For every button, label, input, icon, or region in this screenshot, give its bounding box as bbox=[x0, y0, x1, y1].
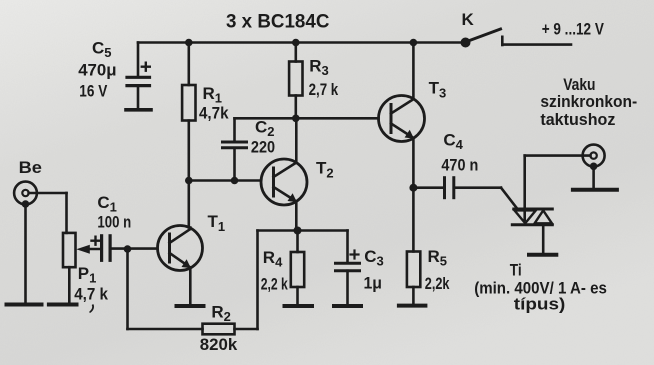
switch K bbox=[461, 29, 572, 48]
node: R3 bottom / T2 collector / T3 base bbox=[292, 115, 300, 123]
wire: R2 to T1 base bbox=[128, 249, 203, 329]
ground: under T1 emitter bbox=[177, 304, 204, 308]
svg-text:4,7 k: 4,7 k bbox=[74, 285, 108, 304]
svg-text:Ti: Ti bbox=[510, 260, 522, 279]
paper background bbox=[0, 0, 1, 1]
svg-text:2,2k: 2,2k bbox=[425, 274, 450, 293]
ground: under R4 bbox=[285, 304, 313, 308]
ground: under Ti bbox=[529, 253, 556, 257]
svg-text:470μ: 470μ bbox=[78, 60, 116, 79]
svg-text:2,2 k: 2,2 k bbox=[261, 274, 288, 293]
svg-text:taktushoz: taktushoz bbox=[540, 110, 615, 129]
ground: under P1 bbox=[49, 303, 77, 307]
node: C1/T1 base junction bbox=[124, 245, 132, 253]
node: C2 bottom junction bbox=[231, 177, 239, 185]
ground: under C3 bbox=[334, 304, 361, 308]
ground: under Be jack bbox=[7, 303, 42, 307]
capacitor C1 100n bbox=[92, 236, 128, 260]
svg-text:2,7 k: 2,7 k bbox=[309, 80, 339, 99]
resistor R5 2,2k bbox=[407, 188, 420, 305]
transistor T1 bbox=[158, 226, 203, 305]
svg-text:220: 220 bbox=[251, 138, 275, 157]
svg-text:K: K bbox=[462, 10, 475, 29]
wire: to T2 base bbox=[189, 179, 261, 182]
ground: under R5 bbox=[399, 304, 426, 308]
svg-text:16 V: 16 V bbox=[79, 81, 108, 100]
capacitor C2 220 bbox=[223, 118, 247, 180]
svg-text:100 n: 100 n bbox=[97, 212, 131, 231]
svg-text:820k: 820k bbox=[200, 335, 238, 354]
wire: T3 base line bbox=[235, 117, 379, 120]
svg-text:4,7k: 4,7k bbox=[199, 104, 229, 123]
potentiometer P1 body bbox=[63, 233, 76, 303]
capacitor C5 bbox=[126, 43, 151, 110]
thyristor Ti (triac) bbox=[512, 156, 552, 254]
resistor R1 4,7k bbox=[182, 43, 195, 228]
svg-text:1μ: 1μ bbox=[364, 274, 383, 293]
potentiometer P1 4,7k wiper arrow bbox=[76, 245, 101, 254]
node: emitter/R4 junction bbox=[294, 227, 302, 235]
wire: feedback down-left to R2 bbox=[235, 231, 258, 330]
wire: Be jack to P1 top bbox=[29, 193, 67, 233]
svg-text:+ 9 ...12 V: + 9 ...12 V bbox=[542, 20, 605, 39]
resistor R3 2,7k bbox=[289, 43, 302, 119]
wire: Ti MT2 to output jack bbox=[525, 154, 591, 157]
capacitor C4 470n bbox=[413, 178, 501, 198]
svg-text:Be: Be bbox=[19, 158, 42, 177]
svg-text:típus): típus) bbox=[514, 295, 566, 314]
svg-text:szinkronkon-: szinkronkon- bbox=[540, 92, 637, 111]
node: rail / T3 collector bbox=[410, 39, 418, 47]
transistor T2 bbox=[261, 118, 307, 230]
wire: T1 base bbox=[128, 247, 158, 250]
connector: output jack (flash sync) bbox=[583, 145, 605, 189]
wire: gate diagonal to Ti bbox=[501, 188, 518, 209]
svg-text:470 n: 470 n bbox=[441, 155, 478, 174]
node: T1 collector / T2 base tap bbox=[185, 177, 193, 185]
connector: Be input jack bbox=[14, 182, 37, 303]
label: P1 value comma flourish bbox=[90, 305, 94, 313]
capacitor C3 1u bbox=[336, 231, 360, 305]
transistor T3 bbox=[379, 43, 425, 188]
svg-text:3 x BC184C: 3 x BC184C bbox=[226, 11, 330, 32]
resistor R2 820k bbox=[203, 324, 235, 335]
wire: T2 emitter node bbox=[258, 229, 348, 232]
wire: +V power rail bbox=[138, 41, 466, 44]
node: T3 emitter / C4 / R5 junction bbox=[409, 184, 417, 192]
node: rail/R3 junction bbox=[292, 39, 300, 47]
ground: under output jack bbox=[573, 188, 617, 192]
node: rail/R1 junction bbox=[185, 39, 193, 47]
resistor R4 2,2k bbox=[291, 231, 304, 305]
